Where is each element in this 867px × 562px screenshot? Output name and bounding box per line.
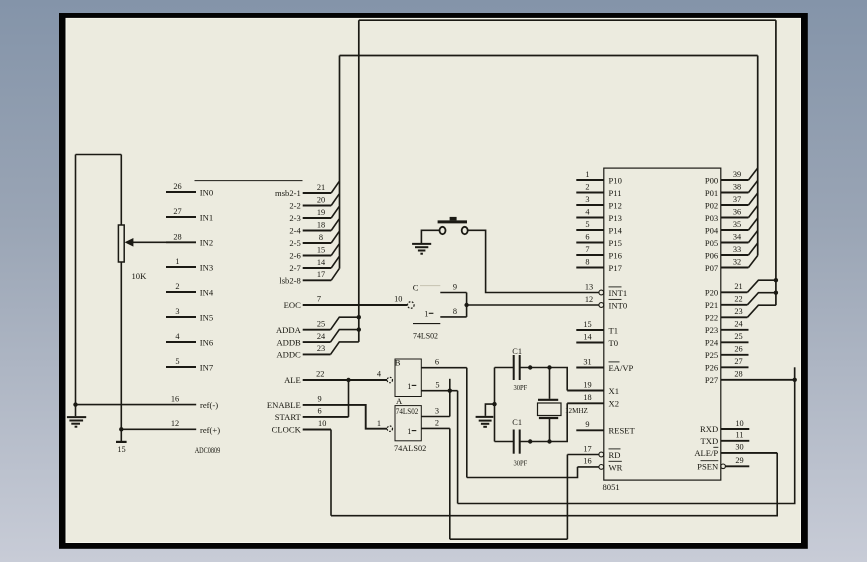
- pin P22 (23) with entry: [705, 305, 776, 323]
- svg-text:1: 1: [424, 310, 428, 319]
- svg-text:38: 38: [733, 182, 741, 191]
- ground crystal: [476, 416, 494, 418]
- pin ALE/P (30): [694, 443, 777, 458]
- svg-text:WR: WR: [609, 462, 623, 472]
- svg-text:15: 15: [317, 245, 325, 254]
- svg-text:10: 10: [735, 419, 743, 428]
- wire left vertical: [75, 155, 77, 405]
- svg-text:ALE: ALE: [284, 375, 301, 385]
- pin P15 (6): [576, 232, 622, 248]
- pin INT1 (13): [585, 282, 627, 298]
- node P20 bus junction: [774, 278, 778, 282]
- node gate C to INT0 junction: [464, 303, 468, 307]
- svg-text:lsb2-8: lsb2-8: [279, 276, 300, 286]
- pin 3 wire gate A: [421, 416, 450, 418]
- wire crystal top left: [495, 367, 514, 369]
- pin 8 wire gate C: [440, 316, 466, 318]
- pin 6 wire gate B: [421, 367, 467, 369]
- pushbutton S1 plunger: [450, 217, 457, 221]
- bus data top wire: [340, 55, 758, 57]
- svg-text:P15: P15: [609, 238, 622, 248]
- wire ref(+): [121, 428, 196, 430]
- svg-text:9: 9: [585, 420, 589, 429]
- bus P0 vertical: [757, 56, 759, 256]
- wire gate B out 6 down: [466, 368, 468, 478]
- pin IN7 (5): [166, 357, 214, 372]
- pin P06 (33) with bus entry: [705, 243, 758, 260]
- pin 2-7 (14) with bus entry: [289, 256, 339, 273]
- pin IN3 (1): [166, 257, 213, 272]
- svg-text:13: 13: [585, 282, 593, 291]
- node crystal top a: [528, 365, 532, 369]
- pin T1 (15): [576, 320, 618, 336]
- pin P12 (3): [576, 195, 622, 211]
- svg-text:31: 31: [583, 357, 591, 366]
- svg-text:6: 6: [435, 358, 439, 367]
- resistor 10K potentiometer body: [118, 225, 124, 262]
- pin msb2-1 (21) with bus entry: [275, 181, 339, 198]
- pin P26 (27): [705, 357, 749, 373]
- svg-text:32: 32: [733, 257, 741, 266]
- pin P21 (22) with entry: [705, 293, 776, 311]
- svg-text:25: 25: [734, 332, 742, 341]
- svg-text:P27: P27: [705, 375, 719, 385]
- svg-text:7: 7: [317, 294, 321, 303]
- svg-text:2-4: 2-4: [289, 226, 301, 236]
- wire ground hook: [485, 404, 494, 416]
- node crystal top b: [547, 365, 551, 369]
- node crystal bottom b: [547, 439, 551, 443]
- node ref(+) junction: [119, 427, 123, 431]
- svg-text:ADDA: ADDA: [276, 325, 302, 335]
- svg-text:RESET: RESET: [609, 426, 636, 436]
- wire P27 stub up: [794, 367, 796, 379]
- wire gate pin5 down: [457, 391, 459, 504]
- svg-text:16: 16: [171, 394, 179, 403]
- wire crystal bottom right: [520, 403, 568, 441]
- nor-gate A body: [395, 406, 421, 441]
- capacitor C1 bottom plates: [513, 430, 515, 454]
- pin EOC (7): [284, 294, 408, 310]
- svg-text:2: 2: [585, 182, 589, 191]
- pin ADDA (25) with entry: [276, 317, 359, 335]
- pin P03 (36) with bus entry: [705, 206, 758, 223]
- svg-text:10: 10: [318, 419, 326, 428]
- ground button: [412, 243, 431, 245]
- svg-text:30PF: 30PF: [514, 383, 528, 392]
- svg-text:PSEN: PSEN: [697, 462, 719, 472]
- svg-text:6: 6: [318, 407, 322, 416]
- node ALE/START junction: [346, 378, 350, 382]
- wire top left: [76, 154, 122, 156]
- svg-text:2-5: 2-5: [289, 238, 300, 248]
- pin RESET (9): [576, 420, 635, 436]
- node crystal ground junction: [492, 402, 496, 406]
- svg-text:P02: P02: [705, 200, 718, 210]
- svg-text:21: 21: [317, 183, 325, 192]
- svg-text:14: 14: [317, 258, 326, 267]
- svg-text:18: 18: [583, 393, 591, 402]
- node P27 junction: [793, 378, 797, 382]
- svg-text:P16: P16: [609, 250, 623, 260]
- svg-text:11: 11: [736, 431, 744, 440]
- svg-text:ADDC: ADDC: [276, 350, 301, 360]
- svg-text:IN5: IN5: [200, 312, 213, 322]
- potentiometer wiper arrow: [133, 241, 166, 243]
- pin 9 wire gate C: [440, 292, 466, 294]
- svg-text:1: 1: [175, 257, 179, 266]
- svg-text:TXD: TXD: [701, 436, 719, 446]
- svg-text:20: 20: [317, 195, 325, 204]
- pin ADDB (24) with entry: [276, 330, 358, 348]
- pushbutton S1 right contact: [462, 227, 468, 234]
- svg-text:8: 8: [453, 307, 457, 316]
- svg-text:17: 17: [583, 444, 591, 453]
- svg-text:22: 22: [316, 370, 324, 379]
- svg-text:22: 22: [734, 295, 742, 304]
- svg-text:26: 26: [734, 345, 742, 354]
- node ADDB junction: [357, 327, 361, 331]
- wire ALE to START: [348, 380, 350, 417]
- svg-text:25: 25: [317, 320, 325, 329]
- nor-gate B body: [395, 359, 421, 397]
- svg-text:23: 23: [734, 307, 742, 316]
- svg-text:P06: P06: [705, 250, 719, 260]
- svg-text:P13: P13: [609, 213, 622, 223]
- svg-text:37: 37: [733, 195, 741, 204]
- ground left: [75, 405, 77, 417]
- nor-gate B output bubble pin 4: [387, 377, 392, 382]
- svg-text:2: 2: [175, 282, 179, 291]
- svg-text:17: 17: [317, 270, 325, 279]
- svg-text:18: 18: [317, 220, 325, 229]
- svg-text:IN7: IN7: [200, 362, 214, 372]
- svg-text:RD: RD: [609, 450, 621, 460]
- pin CLOCK (10): [272, 419, 331, 435]
- capacitor C1 top plates: [513, 355, 515, 380]
- pin IN2 (28): [166, 232, 213, 247]
- svg-text:30PF: 30PF: [514, 459, 528, 468]
- wire P2 vertical: [775, 20, 777, 305]
- pin P27 (28) long wire: [705, 370, 795, 386]
- pin P01 (38) with bus entry: [705, 181, 758, 198]
- svg-text:msb2-1: msb2-1: [275, 188, 301, 198]
- pin INT0 (12): [585, 295, 627, 311]
- crystal Y1 top electrode: [538, 399, 558, 401]
- nor-gate C body top edge: [420, 285, 440, 287]
- svg-text:P25: P25: [705, 350, 718, 360]
- svg-text:7: 7: [585, 245, 589, 254]
- wire ref(-): [76, 404, 197, 406]
- pin P16 (7): [576, 245, 622, 261]
- wire crystal top right: [520, 368, 568, 391]
- svg-text:74LS02: 74LS02: [396, 407, 419, 416]
- svg-text:5: 5: [435, 381, 439, 390]
- svg-text:P17: P17: [609, 263, 623, 273]
- pin P23 (24): [705, 320, 749, 336]
- pin IN0 (26): [166, 182, 213, 197]
- pin P07 (32) with bus entry: [705, 256, 758, 273]
- pin IN1 (27): [166, 207, 213, 222]
- pin P24 (25): [705, 332, 749, 348]
- pin 15 ground stub: [120, 429, 122, 441]
- wire crystal upper stem: [549, 368, 551, 399]
- svg-text:P21: P21: [705, 300, 718, 310]
- svg-text:74ALS02: 74ALS02: [394, 444, 426, 453]
- svg-text:10: 10: [394, 294, 402, 303]
- svg-text:P00: P00: [705, 175, 718, 185]
- svg-text:IN3: IN3: [200, 262, 213, 272]
- svg-text:ref(-): ref(-): [200, 400, 218, 410]
- pin ADDC (23) with entry: [276, 342, 358, 360]
- pin 2-4 (18) with bus entry: [289, 219, 339, 236]
- wire crystal bottom left: [495, 441, 514, 443]
- svg-text:X2: X2: [609, 399, 620, 409]
- svg-text:CLOCK: CLOCK: [272, 425, 302, 435]
- svg-text:C: C: [413, 283, 419, 293]
- svg-text:IN0: IN0: [200, 187, 213, 197]
- pin TXD (11): [701, 431, 750, 446]
- wire rail WR: [467, 467, 578, 478]
- svg-text:P12: P12: [609, 200, 622, 210]
- svg-text:74LS02: 74LS02: [413, 332, 438, 341]
- svg-text:26: 26: [173, 182, 181, 191]
- svg-text:3: 3: [585, 195, 589, 204]
- svg-text:24: 24: [317, 332, 326, 341]
- pin ALE (22): [284, 370, 387, 386]
- pin X1 (19): [567, 380, 619, 396]
- svg-text:T1: T1: [609, 325, 619, 335]
- pin P11 (2): [576, 182, 621, 198]
- svg-text:16: 16: [583, 457, 591, 466]
- svg-text:P05: P05: [705, 238, 718, 248]
- svg-text:C1: C1: [512, 418, 522, 427]
- svg-text:ENABLE: ENABLE: [267, 400, 301, 410]
- svg-text:19: 19: [583, 380, 591, 389]
- pin 2-5 (8) with bus entry: [289, 231, 339, 248]
- pin P20 (21) with entry: [705, 280, 776, 298]
- pin P10 (1): [576, 170, 622, 186]
- svg-text:10K: 10K: [132, 271, 148, 281]
- svg-text:B: B: [395, 357, 401, 367]
- svg-text:36: 36: [733, 207, 741, 216]
- svg-text:P14: P14: [609, 225, 623, 235]
- node crystal bottom a: [528, 439, 532, 443]
- node ADDA junction: [357, 315, 361, 319]
- svg-text:P01: P01: [705, 188, 718, 198]
- svg-text:IN4: IN4: [200, 287, 214, 297]
- pin RD (17): [583, 444, 620, 460]
- pin P25 (26): [705, 345, 749, 361]
- nor-gate C body bottom edge: [413, 323, 440, 325]
- wire rail RD to gate A pin2: [450, 538, 568, 540]
- wire CLOCK down: [330, 430, 332, 516]
- pin RXD (10): [700, 419, 749, 434]
- nor-gate C output bubble pin 10: [408, 302, 415, 309]
- pin WR (16): [583, 457, 622, 473]
- svg-text:2-3: 2-3: [289, 213, 300, 223]
- wire RD to chip: [567, 454, 599, 456]
- svg-text:1: 1: [407, 427, 411, 436]
- wire gate A pin2 down: [449, 428, 451, 539]
- svg-text:34: 34: [733, 232, 742, 241]
- svg-text:8051: 8051: [603, 482, 620, 492]
- node pin5/pin3 junction: [448, 389, 452, 393]
- pin P17 (8): [576, 257, 622, 273]
- svg-text:24: 24: [734, 320, 743, 329]
- pin EA/VP (31): [576, 357, 633, 373]
- pin X2 (18): [567, 393, 619, 409]
- wire CLOCK rail to ALE/P: [331, 453, 777, 516]
- wire RD down: [566, 455, 568, 540]
- svg-text:EA/VP: EA/VP: [609, 363, 634, 373]
- pin IN6 (4): [166, 332, 214, 347]
- svg-text:P10: P10: [609, 175, 622, 185]
- wire to INT0: [467, 304, 599, 306]
- svg-text:15: 15: [117, 445, 125, 454]
- svg-text:28: 28: [173, 232, 181, 241]
- ADC0809 body top edge: [195, 180, 303, 182]
- wire ADD vertical: [358, 20, 360, 342]
- node ref(-) junction: [73, 402, 77, 406]
- pin START (6): [275, 407, 349, 422]
- svg-text:EOC: EOC: [284, 300, 301, 310]
- svg-text:P20: P20: [705, 288, 718, 298]
- svg-text:RXD: RXD: [700, 424, 718, 434]
- wire gate C inputs tie: [466, 293, 468, 317]
- pin 5 wire gate B: [421, 390, 457, 392]
- svg-text:8: 8: [585, 257, 589, 266]
- svg-text:3: 3: [435, 406, 439, 415]
- svg-text:P23: P23: [705, 325, 718, 335]
- svg-text:27: 27: [734, 357, 742, 366]
- pin 2-2 (20) with bus entry: [289, 194, 339, 211]
- wire address top: [359, 19, 776, 21]
- svg-text:2: 2: [435, 419, 439, 428]
- crystal Y1 body: [538, 403, 562, 416]
- svg-text:A: A: [396, 396, 403, 406]
- pushbutton S1 cap bar: [438, 220, 467, 223]
- svg-text:ref(+): ref(+): [200, 425, 220, 435]
- pin IN5 (3): [166, 307, 213, 322]
- pin 2 wire gate A: [421, 427, 450, 429]
- wire button right to INT1: [468, 230, 599, 292]
- pin IN4 (2): [166, 282, 214, 297]
- svg-text:P24: P24: [705, 338, 719, 348]
- svg-text:2-7: 2-7: [289, 263, 301, 273]
- svg-text:1: 1: [407, 382, 411, 391]
- svg-text:2-2: 2-2: [289, 201, 300, 211]
- pin P05 (34) with bus entry: [705, 231, 758, 248]
- svg-text:ADC0809: ADC0809: [195, 445, 221, 455]
- svg-text:1: 1: [377, 419, 381, 428]
- svg-text:23: 23: [317, 344, 325, 353]
- svg-text:C1: C1: [512, 347, 522, 356]
- svg-text:12: 12: [585, 295, 593, 304]
- svg-text:3: 3: [175, 307, 179, 316]
- crystal Y1 bottom electrode: [539, 417, 558, 419]
- pin ENABLE (9): [267, 394, 387, 428]
- svg-text:5: 5: [175, 357, 179, 366]
- svg-text:35: 35: [733, 220, 741, 229]
- wire pot bottom: [120, 262, 122, 429]
- svg-text:T0: T0: [609, 338, 619, 348]
- svg-text:28: 28: [734, 370, 742, 379]
- svg-text:12: 12: [171, 419, 179, 428]
- svg-text:INT1: INT1: [609, 288, 628, 298]
- node P21 bus junction: [774, 291, 778, 295]
- pin P13 (4): [576, 207, 622, 223]
- svg-text:19: 19: [317, 208, 325, 217]
- bus ADC data vertical: [339, 56, 341, 269]
- svg-text:8: 8: [319, 233, 323, 242]
- svg-text:IN6: IN6: [200, 337, 214, 347]
- svg-text:X1: X1: [609, 386, 620, 396]
- svg-text:27: 27: [173, 207, 181, 216]
- pin 2-3 (19) with bus entry: [289, 206, 339, 223]
- svg-text:14: 14: [583, 332, 592, 341]
- pin P02 (37) with bus entry: [705, 193, 758, 210]
- wire crystal left vertical: [494, 368, 496, 442]
- svg-text:IN2: IN2: [200, 238, 213, 248]
- svg-text:30: 30: [735, 443, 743, 452]
- svg-text:21: 21: [734, 282, 742, 291]
- svg-text:5: 5: [585, 220, 589, 229]
- svg-text:39: 39: [733, 170, 741, 179]
- svg-text:29: 29: [735, 456, 743, 465]
- pin P00 (39) with bus entry: [705, 168, 758, 185]
- pin 2-6 (15) with bus entry: [289, 244, 339, 261]
- pin P14 (5): [576, 220, 622, 236]
- op 8051 U1 body: [604, 168, 721, 480]
- pin P04 (35) with bus entry: [705, 218, 758, 235]
- svg-text:ADDB: ADDB: [276, 337, 301, 347]
- svg-text:15: 15: [583, 320, 591, 329]
- svg-text:P11: P11: [609, 188, 622, 198]
- svg-text:P07: P07: [705, 263, 719, 273]
- svg-text:START: START: [275, 412, 302, 422]
- svg-text:P03: P03: [705, 213, 718, 223]
- wire crystal lower stem: [549, 419, 551, 442]
- svg-text:33: 33: [733, 245, 741, 254]
- svg-text:ALE/P: ALE/P: [694, 448, 718, 458]
- svg-text:9: 9: [453, 283, 457, 292]
- nor-gate A output bubble pin 1: [387, 426, 392, 431]
- pin lsb2-8 (17) with bus entry: [279, 269, 339, 286]
- svg-text:INT0: INT0: [609, 300, 628, 310]
- svg-text:6: 6: [585, 232, 589, 241]
- svg-text:P04: P04: [705, 225, 719, 235]
- svg-text:IN1: IN1: [200, 212, 213, 222]
- svg-text:1: 1: [585, 170, 589, 179]
- wire rail P27: [458, 367, 795, 503]
- wire pot top: [120, 155, 122, 226]
- wire pin3 to pin5 vertical: [449, 379, 451, 417]
- svg-text:2-6: 2-6: [289, 251, 301, 261]
- pin T0 (14): [576, 332, 618, 348]
- svg-text:9: 9: [318, 394, 322, 403]
- wire button left: [421, 230, 439, 243]
- pushbutton S1 left contact: [440, 227, 446, 234]
- svg-text:P26: P26: [705, 363, 719, 373]
- pin PSEN (29): [697, 456, 749, 471]
- wire WR to chip: [578, 466, 599, 468]
- svg-text:P22: P22: [705, 313, 718, 323]
- svg-text:12MHZ: 12MHZ: [565, 406, 588, 415]
